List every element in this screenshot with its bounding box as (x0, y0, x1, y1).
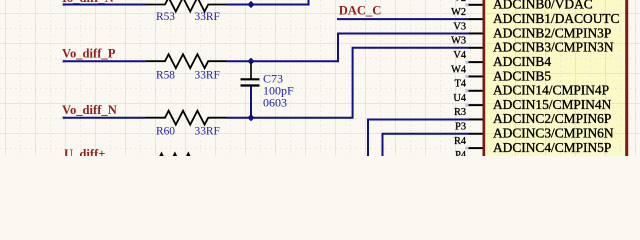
pin V2 stub (469, 4, 483, 6)
IC right border (625, 0, 628, 156)
pin W2 stub (469, 18, 483, 20)
svg-text:R53: R53 (156, 11, 175, 23)
svg-text:W3: W3 (451, 36, 466, 47)
wire DAC_C to W2 pin (337, 18, 469, 20)
wire Io_diff_N right, elbow up to top edge (227, 0, 309, 5)
svg-text:ADCINC2/CMPIN6P: ADCINC2/CMPIN6P (493, 111, 611, 126)
pin W4 stub (469, 75, 483, 77)
svg-text:R3: R3 (454, 107, 466, 118)
svg-text:33RF: 33RF (195, 69, 220, 81)
IC body fill (484, 0, 625, 156)
wire Vo_diff_P left (63, 60, 146, 62)
svg-text:ADCINB4: ADCINB4 (493, 54, 551, 69)
svg-text:P3: P3 (455, 122, 466, 133)
svg-text:V3: V3 (453, 21, 466, 32)
svg-text:U4: U4 (453, 93, 466, 104)
IC left border (483, 0, 486, 156)
junction (251,4.5) (247, 1, 254, 8)
svg-text:33RF: 33RF (195, 126, 220, 138)
resistor R58 (146, 54, 227, 68)
wire Vo_diff_N left (63, 117, 146, 119)
pin R4 stub (469, 147, 483, 149)
svg-text:V2: V2 (453, 0, 466, 4)
capacitor C73 (241, 61, 260, 117)
svg-text:ADCINC4/CMPIN5P: ADCINC4/CMPIN5P (493, 140, 611, 155)
svg-text:ADCINB1/DACOUTC: ADCINB1/DACOUTC (493, 11, 620, 26)
pin V3 stub (469, 32, 483, 34)
svg-text:ADCINC3/CMPIN6N: ADCINC3/CMPIN6N (493, 126, 614, 141)
svg-text:ADCIN15/CMPIN4N: ADCIN15/CMPIN4N (493, 97, 612, 112)
svg-text:ADCINB2/CMPIN3P: ADCINB2/CMPIN3P (493, 25, 611, 40)
junction Vo_diff_N/C73 (247, 114, 254, 121)
svg-text:R4: R4 (454, 136, 466, 147)
resistor R60 (146, 111, 227, 125)
svg-text:Vo_diff_P: Vo_diff_P (62, 46, 116, 60)
svg-text:ADCIN14/CMPIN4P: ADCIN14/CMPIN4P (493, 83, 609, 98)
svg-text:V4: V4 (453, 50, 466, 61)
resistor R53 (146, 0, 227, 12)
svg-text:DAC_C: DAC_C (339, 4, 382, 18)
wire to R3 pin from bottom edge (368, 119, 469, 156)
svg-text:T4: T4 (455, 79, 466, 90)
junction Vo_diff_P/C73 (247, 58, 254, 65)
pin U4 stub (469, 104, 483, 106)
pin R3 stub (469, 118, 483, 120)
wire end markers (62, 3, 65, 6)
svg-text:ADCINB3/CMPIN3N: ADCINB3/CMPIN3N (493, 40, 614, 55)
svg-text:Vo_diff_N: Vo_diff_N (62, 103, 117, 117)
wire Vo_diff_P right, elbow up to V3 pin (227, 33, 469, 61)
resistor R61 (clipped at bottom) (158, 154, 198, 168)
wire to P3 pin from bottom edge (383, 134, 469, 156)
svg-text:W2: W2 (451, 7, 466, 18)
svg-text:W4: W4 (451, 64, 466, 75)
wire Vo_diff_N right, elbow up to W3 pin (227, 48, 469, 118)
svg-text:ADCINB0/VDAC: ADCINB0/VDAC (493, 0, 593, 12)
pin V4 stub (469, 61, 483, 63)
svg-text:U_diff+: U_diff+ (64, 147, 105, 156)
svg-text:ADCINB5: ADCINB5 (493, 68, 551, 83)
svg-text:R60: R60 (156, 126, 175, 138)
svg-text:0603: 0603 (263, 95, 287, 109)
wire Io_diff_N left (63, 4, 146, 6)
pin T4 stub (469, 90, 483, 92)
svg-text:P4: P4 (455, 150, 466, 156)
svg-text:R58: R58 (156, 69, 175, 81)
pin P3 stub (469, 133, 483, 135)
pin W3 stub (469, 47, 483, 49)
svg-text:33RF: 33RF (195, 11, 220, 23)
